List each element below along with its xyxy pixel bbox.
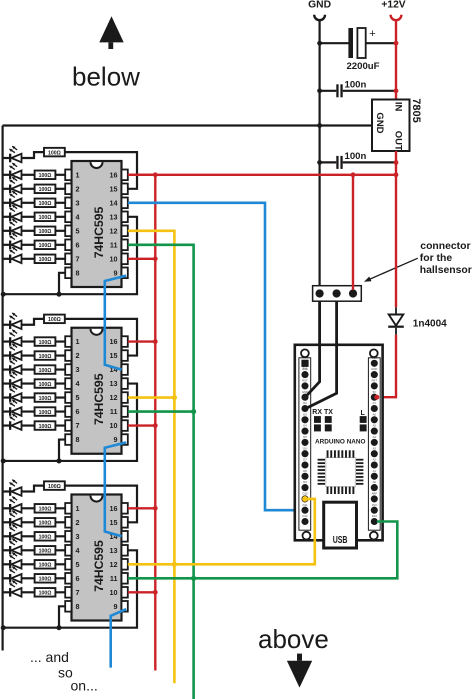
wire GND rail top horizontal xyxy=(3,124,372,126)
arduino right pins xyxy=(371,360,378,525)
junction green rail U3 xyxy=(191,576,196,581)
wire LATCH yellow U3pin12-arduino xyxy=(128,499,315,564)
LED D21 xyxy=(3,538,22,554)
svg-text:connector: connector xyxy=(420,241,470,252)
svg-text:13: 13 xyxy=(110,212,118,221)
resistor R4 100 xyxy=(35,199,56,208)
resistor R23 100 xyxy=(35,574,56,583)
svg-text:6: 6 xyxy=(76,240,80,249)
capacitor C2 100n xyxy=(336,84,342,97)
svg-text:ARDUINO NANO: ARDUINO NANO xyxy=(315,438,366,445)
wire R0 to pin15 loop U2 xyxy=(65,319,137,356)
svg-text:5: 5 xyxy=(76,560,80,569)
svg-text:100Ω: 100Ω xyxy=(39,507,52,513)
LED D4 xyxy=(3,191,22,207)
svg-text:hallsensor: hallsensor xyxy=(420,265,472,276)
wire LED-R row7 U3 xyxy=(22,591,35,593)
wire pin16 +5V U1 xyxy=(128,174,156,176)
svg-text:16: 16 xyxy=(110,504,118,513)
resistor R7 100 xyxy=(35,241,56,250)
junction green U2 xyxy=(191,409,196,414)
junction red VIN xyxy=(374,395,379,400)
svg-text:5: 5 xyxy=(76,226,80,235)
resistor R6 100 xyxy=(35,227,56,236)
wire LED0-R jog U1 xyxy=(22,152,45,158)
svg-text:2: 2 xyxy=(76,518,80,527)
wire R-pin1 U3 xyxy=(55,507,65,509)
junction GND-C2 xyxy=(317,88,322,93)
svg-text:16: 16 xyxy=(110,170,118,179)
svg-text:4: 4 xyxy=(76,379,80,388)
svg-text:100Ω: 100Ω xyxy=(39,368,52,374)
wire green U2pin11 xyxy=(128,410,194,413)
wire yellow U2pin12 xyxy=(128,396,175,399)
svg-text:15: 15 xyxy=(110,518,118,527)
junction loop-rail U3 xyxy=(1,625,6,630)
svg-text:D7: D7 xyxy=(303,458,307,462)
wire +12V vertical xyxy=(395,20,397,100)
wire 100n2 right xyxy=(343,161,396,163)
svg-text:10: 10 xyxy=(110,588,118,597)
capacitor C1 2200uF xyxy=(348,28,365,58)
svg-text:4: 4 xyxy=(76,212,80,221)
wire R-pin3 U2 xyxy=(55,368,65,370)
svg-text:8: 8 xyxy=(76,602,80,611)
svg-text:100Ω: 100Ω xyxy=(39,521,52,527)
wire R-pin4 U3 xyxy=(55,549,65,551)
svg-text:100Ω: 100Ω xyxy=(39,535,52,541)
svg-text:1: 1 xyxy=(76,170,80,179)
shift register U3 74HC595 body xyxy=(72,495,122,621)
connector J1 for hallsensor xyxy=(313,286,362,302)
LED D7 xyxy=(3,233,22,249)
svg-text:1: 1 xyxy=(76,337,80,346)
svg-text:100Ω: 100Ω xyxy=(39,382,52,388)
capacitor C3 100n xyxy=(336,156,342,169)
svg-text:9: 9 xyxy=(114,435,118,444)
svg-text:D11: D11 xyxy=(303,503,308,507)
junction pin16 red U3 xyxy=(153,506,158,511)
svg-text:6: 6 xyxy=(76,407,80,416)
wire 7805 OUT down xyxy=(395,151,397,175)
svg-text:74HC595: 74HC595 xyxy=(92,373,106,425)
wire R-pin5 U2 xyxy=(55,396,65,398)
arduino left pin labels xyxy=(302,367,308,518)
wire R-pin6 U3 xyxy=(55,577,65,579)
svg-text:above: above xyxy=(258,624,329,654)
U3 left pin numbers 1-8 xyxy=(76,504,80,611)
resistor R12 100 xyxy=(35,365,56,374)
junction pin8-loop U1 xyxy=(57,292,62,297)
svg-text:8: 8 xyxy=(76,435,80,444)
svg-text:100Ω: 100Ω xyxy=(39,173,52,179)
wire R-pin5 U3 xyxy=(55,563,65,565)
arduino right pin labels xyxy=(371,356,377,518)
junction pin10 red U3 xyxy=(153,590,158,595)
resistor R2 100 xyxy=(35,171,56,180)
LED D23 xyxy=(3,566,22,582)
U1 left pin boxes xyxy=(65,170,71,279)
svg-text:9: 9 xyxy=(114,268,118,277)
LED D24 xyxy=(3,580,22,596)
svg-text:1: 1 xyxy=(76,504,80,513)
svg-text:D5: D5 xyxy=(303,435,307,439)
svg-text:below: below xyxy=(72,62,140,92)
svg-text:7805: 7805 xyxy=(410,98,422,122)
LED D9 xyxy=(3,313,22,329)
junction pin10 red U1 xyxy=(153,256,158,261)
svg-text:+12V: +12V xyxy=(381,0,405,11)
resistor R20 100 xyxy=(35,532,56,541)
junction pin8-loop U2 xyxy=(57,458,62,463)
J1 pin 1 xyxy=(316,289,324,297)
junction +5V red rail xyxy=(153,172,158,177)
svg-text:100Ω: 100Ω xyxy=(39,563,52,569)
junction GND-C1 xyxy=(317,41,322,46)
svg-text:100n: 100n xyxy=(345,79,367,90)
svg-text:D3: D3 xyxy=(303,412,307,416)
svg-text:9: 9 xyxy=(114,602,118,611)
svg-text:D9: D9 xyxy=(303,480,307,484)
svg-text:on...: on... xyxy=(71,677,98,693)
LED D14 xyxy=(3,385,22,401)
resistor R11 100 xyxy=(35,351,56,360)
svg-text:11: 11 xyxy=(110,240,118,249)
wire red rail vertical xyxy=(154,175,156,671)
resistor R16 100 xyxy=(35,421,56,430)
svg-text:7: 7 xyxy=(76,588,80,597)
svg-text:GND: GND xyxy=(308,0,331,11)
svg-text:GND: GND xyxy=(371,367,377,371)
left pin strip xyxy=(299,358,311,530)
wire R-pin6 U1 xyxy=(55,244,65,246)
wire LED-R row2 U1 xyxy=(22,188,35,190)
microcontroller QFP chip xyxy=(318,450,364,494)
U2 right pin numbers 16-9 xyxy=(110,337,118,444)
svg-text:D12: D12 xyxy=(303,514,308,518)
wire diode to VIN xyxy=(377,335,396,397)
junction GND-C3 xyxy=(317,160,322,165)
svg-text:... and: ... and xyxy=(30,649,69,665)
wire pin10 +5V U2 xyxy=(128,424,156,426)
wire R-pin2 U3 xyxy=(55,521,65,523)
svg-text:8: 8 xyxy=(76,268,80,277)
mount hole bottom-right xyxy=(370,532,378,540)
svg-text:100Ω: 100Ω xyxy=(39,187,52,193)
svg-text:7: 7 xyxy=(76,254,80,263)
U3 notch xyxy=(91,496,103,502)
wire R0 to pin15 loop U3 xyxy=(65,486,137,523)
wire 2200uF right xyxy=(366,42,396,44)
wire R0 to pin15 loop U1 xyxy=(65,152,137,189)
junction loop-rail U1 xyxy=(1,292,6,297)
U1 right pin boxes xyxy=(122,170,128,279)
svg-text:100Ω: 100Ω xyxy=(39,340,52,346)
wire R-pin7 U1 xyxy=(55,258,65,260)
direction arrow up (to section below) xyxy=(99,16,123,49)
svg-text:14: 14 xyxy=(110,198,118,207)
svg-text:USB: USB xyxy=(333,535,348,546)
svg-text:100Ω: 100Ω xyxy=(39,591,52,597)
LED D8 xyxy=(3,247,22,263)
wire daisy blue U3pin9 down xyxy=(111,609,127,668)
LED D20 xyxy=(3,524,22,540)
shift register U1 74HC595 body xyxy=(72,161,122,287)
wire daisy blue U2pin9-U3pin14 xyxy=(105,442,126,536)
wire pin8 gnd U2 xyxy=(59,440,65,461)
svg-text:1n4004: 1n4004 xyxy=(413,319,447,330)
wire +5V horizontal rail xyxy=(128,174,396,176)
svg-text:100Ω: 100Ω xyxy=(39,549,52,555)
LED D2 xyxy=(3,163,22,179)
arduino left pins xyxy=(301,360,308,525)
wire LED0-R jog U2 xyxy=(22,319,45,325)
resistor R10 100 xyxy=(35,337,56,346)
wire 100n1 left xyxy=(320,90,337,92)
LED D6 xyxy=(3,219,22,235)
LED D1 xyxy=(3,146,22,162)
L led xyxy=(360,416,367,431)
U3 right pin boxes xyxy=(122,503,128,612)
wire LED-R row4 U2 xyxy=(22,382,35,384)
svg-text:3: 3 xyxy=(76,198,80,207)
label and so on xyxy=(30,649,98,694)
svg-text:3V3: 3V3 xyxy=(372,503,377,507)
svg-text:100Ω: 100Ω xyxy=(39,354,52,360)
svg-text:6: 6 xyxy=(76,574,80,583)
svg-text:A0: A0 xyxy=(373,480,377,484)
svg-text:RST: RST xyxy=(372,379,378,383)
wire R-pin4 U2 xyxy=(55,382,65,384)
svg-text:2: 2 xyxy=(76,351,80,360)
svg-text:A2: A2 xyxy=(373,458,377,462)
svg-text:A3: A3 xyxy=(373,446,377,450)
J1 pin 3 xyxy=(349,289,357,297)
wire R-pin3 U3 xyxy=(55,535,65,537)
wire LED-R row7 U2 xyxy=(22,424,35,426)
wire left rail vertical xyxy=(1,126,3,651)
tx led xyxy=(325,416,332,431)
svg-text:IN: IN xyxy=(393,102,404,112)
U2 left pin numbers 1-8 xyxy=(76,337,80,444)
U2 left pin boxes xyxy=(65,336,71,445)
svg-text:12: 12 xyxy=(110,393,118,402)
svg-text:D4: D4 xyxy=(303,424,307,428)
+12V terminal xyxy=(391,15,402,20)
svg-text:OUT: OUT xyxy=(393,131,404,151)
wire 100n1 right xyxy=(343,90,396,92)
wire pin8 gnd U1 xyxy=(59,273,65,294)
svg-text:100Ω: 100Ω xyxy=(39,229,52,235)
LED D10 xyxy=(3,329,22,345)
wire LED-R row1 U1 xyxy=(22,174,35,176)
U2 right pin boxes xyxy=(122,336,128,445)
right pin strip xyxy=(368,358,380,530)
svg-text:13: 13 xyxy=(110,379,118,388)
arduino nano board xyxy=(295,345,383,541)
svg-text:A4: A4 xyxy=(373,435,377,439)
svg-text:GND: GND xyxy=(302,390,308,394)
wire pin10 +5V U1 xyxy=(128,258,156,260)
LED D13 xyxy=(3,371,22,387)
resistor R3 100 xyxy=(35,185,56,194)
svg-text:74HC595: 74HC595 xyxy=(92,540,106,592)
junction pin16 red U2 xyxy=(153,339,158,344)
wire +12V to diode xyxy=(395,175,397,307)
U1 right pin numbers 16-9 xyxy=(110,170,118,277)
svg-text:100Ω: 100Ω xyxy=(39,410,52,416)
wire +5V hall drop xyxy=(352,175,354,290)
svg-text:100Ω: 100Ω xyxy=(39,215,52,221)
LED D18 xyxy=(3,496,22,512)
resistor R5 100 xyxy=(35,213,56,222)
wire LED-R row3 U3 xyxy=(22,535,35,537)
wire LED-R row5 U2 xyxy=(22,396,35,398)
svg-text:100Ω: 100Ω xyxy=(39,396,52,402)
svg-text:for the: for the xyxy=(420,253,453,264)
LED D17 xyxy=(3,479,22,495)
wire hall signal to arduino xyxy=(306,301,337,408)
svg-text:4: 4 xyxy=(76,546,80,555)
junction yellow rail U3 xyxy=(172,562,177,567)
wire 2200uF left xyxy=(320,42,349,44)
mount hole top-left xyxy=(301,349,309,357)
wire pin13 loop U3 xyxy=(3,550,137,627)
svg-text:100Ω: 100Ω xyxy=(39,243,52,249)
wire LED-R row2 U2 xyxy=(22,354,35,356)
junction +12V-C1 xyxy=(394,41,399,46)
wire daisy blue U1pin9-U2pin14 xyxy=(105,276,126,370)
wire LED-R row4 U1 xyxy=(22,216,35,218)
wire pin10 +5V U3 xyxy=(128,591,156,593)
resistor R15 100 xyxy=(35,407,56,416)
svg-text:A5: A5 xyxy=(373,424,377,428)
wire R-pin7 U2 xyxy=(55,424,65,426)
wire R-pin6 U2 xyxy=(55,410,65,412)
wire pin16 +5V U2 xyxy=(128,340,156,342)
svg-text:15: 15 xyxy=(110,351,118,360)
label connector for the hallsensor xyxy=(420,241,472,276)
junction GND-7805row xyxy=(317,123,322,128)
junction +5V corner xyxy=(394,172,399,177)
resistor R14 100 xyxy=(35,393,56,402)
wire LED-R row3 U2 xyxy=(22,368,35,370)
wire DATA blue U1pin14-arduino xyxy=(128,203,304,510)
diode D25 1n4004 xyxy=(388,307,404,335)
J1 pin 2 xyxy=(333,289,341,297)
wire R-pin5 U1 xyxy=(55,230,65,232)
LED D11 xyxy=(3,343,22,359)
resistor R18 100 xyxy=(35,504,56,513)
svg-text:2200uF: 2200uF xyxy=(346,61,379,72)
svg-text:RX TX: RX TX xyxy=(312,409,333,416)
svg-text:D10: D10 xyxy=(303,492,308,496)
svg-text:A7: A7 xyxy=(373,401,377,405)
wire LED-R row6 U1 xyxy=(22,244,35,246)
wire LED-R row3 U1 xyxy=(22,202,35,204)
svg-text:2: 2 xyxy=(76,184,80,193)
svg-text:5: 5 xyxy=(76,393,80,402)
label arrow to J1 xyxy=(364,258,418,282)
wire pin13 loop U1 xyxy=(3,217,137,294)
svg-text:RX0: RX0 xyxy=(302,367,308,371)
svg-text:12: 12 xyxy=(110,560,118,569)
resistor R21 100 xyxy=(35,546,56,555)
svg-text:12: 12 xyxy=(110,226,118,235)
junction +5V hall drop xyxy=(351,172,356,177)
svg-text:L: L xyxy=(361,410,366,417)
shift register U2 74HC595 body xyxy=(72,328,122,454)
svg-text:7: 7 xyxy=(76,421,80,430)
wire R-pin3 U1 xyxy=(55,202,65,204)
wire R-pin7 U3 xyxy=(55,591,65,593)
wire CLK green U3pin11-arduino xyxy=(128,522,398,579)
svg-text:D6: D6 xyxy=(303,446,307,450)
svg-text:11: 11 xyxy=(110,407,118,416)
svg-text:15: 15 xyxy=(110,184,118,193)
usb connector xyxy=(324,502,357,548)
wire R-pin1 U1 xyxy=(55,174,65,176)
wire pin16 +5V U3 xyxy=(128,507,156,509)
direction arrow down (to section above) xyxy=(287,654,312,688)
LED D16 xyxy=(3,413,22,429)
svg-text:100Ω: 100Ω xyxy=(48,150,61,156)
svg-text:74HC595: 74HC595 xyxy=(92,207,106,259)
resistor R19 100 xyxy=(35,518,56,527)
wire R-pin1 U2 xyxy=(55,340,65,342)
wire LED0-R jog U3 xyxy=(22,486,45,492)
wire LED-R row2 U3 xyxy=(22,521,35,523)
wire LED-R row5 U3 xyxy=(22,563,35,565)
LED D12 xyxy=(3,357,22,373)
wire LED-R row6 U3 xyxy=(22,577,35,579)
resistor R22 100 xyxy=(35,560,56,569)
wire LED-R row7 U1 xyxy=(22,258,35,260)
svg-text:10: 10 xyxy=(110,254,118,263)
resistor R17 100 xyxy=(44,481,65,490)
resistor R13 100 xyxy=(35,379,56,388)
wire 100n2 left xyxy=(320,161,337,163)
svg-text:3: 3 xyxy=(76,532,80,541)
wire CLK green U1pin11 rail xyxy=(128,245,194,699)
LED D5 xyxy=(3,205,22,221)
svg-text:16: 16 xyxy=(110,337,118,346)
svg-text:VIN: VIN xyxy=(372,356,377,360)
rx led xyxy=(314,416,321,431)
junction yellow D10 pin xyxy=(302,496,308,502)
svg-text:10: 10 xyxy=(110,421,118,430)
U1 left pin numbers 1-8 xyxy=(76,170,80,277)
svg-text:100n: 100n xyxy=(345,151,367,162)
svg-text:100Ω: 100Ω xyxy=(48,484,61,490)
GND terminal xyxy=(314,15,325,20)
U3 right pin numbers 16-9 xyxy=(110,504,118,611)
junction +12V-C2 xyxy=(394,88,399,93)
LED D19 xyxy=(3,510,22,526)
LED D22 xyxy=(3,552,22,568)
LED D15 xyxy=(3,399,22,415)
svg-text:D2: D2 xyxy=(303,401,307,405)
wire LED-R row1 U2 xyxy=(22,340,35,342)
resistor R24 100 xyxy=(35,588,56,597)
svg-text:D8: D8 xyxy=(303,469,307,473)
junction loop-rail U2 xyxy=(1,458,6,463)
junction pin10 red U2 xyxy=(153,423,158,428)
svg-text:100Ω: 100Ω xyxy=(39,201,52,207)
wire GND vertical xyxy=(319,20,321,293)
svg-text:100Ω: 100Ω xyxy=(39,257,52,263)
wire LED-R row5 U1 xyxy=(22,230,35,232)
